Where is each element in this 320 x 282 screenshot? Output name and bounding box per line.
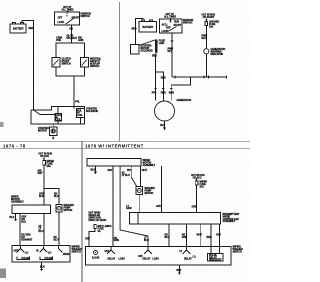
wire battery to solenoid RED (136, 19, 143, 45)
wire to wiper fuse (196, 179, 198, 181)
svg-text:ASSEMBLY: ASSEMBLY (143, 164, 156, 167)
wire labels row (56, 35, 83, 43)
pull in coil (76, 109, 84, 124)
svg-text:SWITCH: SWITCH (183, 22, 192, 25)
svg-text:BLK: BLK (168, 50, 173, 53)
wire jog to generator BRN (171, 77, 190, 100)
wiper washer switch box (86, 247, 232, 266)
svg-text:RED: RED (161, 91, 166, 94)
svg-text:25A: 25A (47, 165, 52, 168)
svg-text:SOLENOID: SOLENOID (141, 50, 153, 53)
wire solenoid to starter motor (52, 124, 54, 127)
svg-text:PNK: PNK (56, 39, 61, 42)
svg-text:BLU: BLU (39, 230, 44, 233)
intermittent wiper controller box (130, 213, 221, 225)
battery B1 (10, 23, 26, 34)
wire long LT BLU with bend (120, 166, 148, 247)
svg-text:PARK OR HEAD: PARK OR HEAD (89, 219, 107, 222)
wire labels (21, 216, 33, 242)
svg-text:BLK: BLK (91, 168, 96, 171)
wiper motor assembly box (87, 159, 141, 167)
svg-text:PPL: PPL (75, 101, 80, 104)
switch interior contacts (14, 246, 71, 260)
wiper motor assembly box (12, 205, 51, 214)
svg-text:WASH: WASH (63, 253, 70, 256)
wire switch to ground (178, 265, 180, 273)
svg-text:LOCK: LOCK (58, 21, 65, 24)
label intermittent wiper controller (223, 213, 241, 223)
label wiper washer switch (72, 246, 83, 254)
label fusible link (159, 40, 166, 45)
generator warning indicator L1 (204, 49, 209, 54)
svg-text:START: START (174, 24, 182, 27)
svg-text:BLK: BLK (202, 37, 207, 40)
inst lamps fuse F5 (94, 225, 112, 234)
label washer pump motor (145, 187, 156, 195)
generator G1 (155, 101, 175, 121)
svg-text:SWITCH: SWITCH (72, 251, 81, 254)
svg-text:10A: 10A (209, 26, 214, 29)
svg-text:SWITCH: SWITCH (90, 65, 99, 68)
wire battery to starter solenoid (RED) (22, 21, 34, 111)
wire to wiper fuse (43, 158, 45, 161)
label clutch start switch (62, 58, 72, 66)
header underline (0, 148, 250, 150)
svg-text:25A: 25A (200, 186, 205, 189)
wire fuse down (43, 165, 45, 205)
wire label DK BLU (54, 236, 59, 241)
label starter solenoid (86, 108, 98, 113)
starter motor solenoid box (131, 45, 140, 55)
ground wiper switch right (178, 273, 181, 276)
svg-text:BLK: BLK (177, 269, 182, 272)
junction T to washer pump (44, 189, 59, 205)
wiper fuse F3 (43, 158, 45, 160)
svg-text:WHT: WHT (142, 169, 148, 172)
wire labels LT BLU (122, 171, 149, 241)
svg-text:COIL: COIL (77, 114, 83, 117)
svg-text:DELAY: DELAY (143, 258, 151, 261)
wire branch RED to generator (156, 72, 164, 101)
label washer pump motor (64, 204, 75, 212)
neutral safety backup lamp switch S3 (81, 58, 89, 68)
svg-text:MOTOR: MOTOR (145, 192, 154, 195)
junction bus upper (56, 43, 85, 58)
ground wiper motor (14, 219, 17, 222)
svg-text:OFF: OFF (58, 17, 63, 20)
wire fusible link to generator (155, 54, 157, 101)
switch interior illumination lamp (92, 251, 99, 260)
battery B2 (139, 20, 157, 32)
svg-text:BATTERY: BATTERY (143, 26, 154, 29)
starter motor M1 (38, 127, 57, 135)
svg-text:SOLENOID: SOLENOID (86, 110, 98, 113)
svg-text:BLK: BLK (21, 221, 26, 224)
svg-text:OR START: OR START (203, 16, 215, 19)
wire label DK GRN (114, 237, 119, 242)
wiper washer switch box (12, 246, 70, 263)
solenoid interior contacts (34, 107, 74, 115)
wire label PNK BLK (168, 48, 174, 53)
wire WHT (140, 166, 147, 187)
svg-text:GRN: GRN (114, 239, 119, 242)
label generator warning indicator (211, 48, 226, 56)
gauges fuse F2 (205, 19, 208, 25)
svg-text:INDICATOR: INDICATOR (211, 53, 224, 56)
hot in run or start label (202, 14, 216, 19)
svg-text:SWITCH: SWITCH (81, 15, 90, 18)
svg-text:BLU: BLU (144, 239, 149, 242)
svg-text:LT BLU: LT BLU (122, 174, 130, 177)
wiper fuse F4 (195, 179, 197, 181)
svg-text:OFF: OFF (105, 250, 110, 253)
wire labels PPL RED BRN (152, 89, 174, 95)
svg-text:MOTOR: MOTOR (64, 209, 73, 212)
scan artifact bottom left corner (0, 269, 6, 279)
ground wiper switch (40, 269, 43, 272)
svg-text:BLK: BLK (160, 124, 165, 127)
divider between top quadrants (119, 2, 121, 141)
svg-text:BLU: BLU (165, 236, 170, 239)
svg-text:GRN: GRN (126, 207, 131, 210)
wire generator to ground (164, 121, 166, 128)
svg-text:GRN: GRN (78, 39, 83, 42)
junction bus lower (56, 67, 85, 76)
svg-text:GRY: GRY (38, 172, 43, 175)
wire label (39, 225, 44, 233)
svg-text:SWITCH: SWITCH (233, 251, 242, 254)
svg-text:ASSEMBLY: ASSEMBLY (223, 220, 236, 223)
svg-text:OR: OR (69, 28, 73, 31)
section divider vertical (81, 141, 83, 282)
svg-text:RED: RED (152, 55, 157, 58)
hot w/ regular switch label (89, 212, 107, 222)
svg-text:GRY: GRY (156, 205, 161, 208)
junction bus to indicator (172, 76, 227, 79)
svg-text:PPL: PPL (152, 91, 157, 94)
svg-text:BLK: BLK (39, 195, 44, 198)
svg-text:DELAY: DELAY (108, 258, 116, 261)
svg-text:RED: RED (132, 28, 137, 31)
wire label (38, 170, 43, 175)
fusible link F1 (155, 40, 158, 54)
svg-text:1978 W/ INTERMITTENT: 1978 W/ INTERMITTENT (85, 143, 144, 148)
svg-text:GENERATOR: GENERATOR (177, 99, 192, 102)
hold in coil (55, 114, 63, 124)
svg-text:GRY: GRY (108, 169, 113, 172)
wire wiper motor to switch 2 (43, 214, 45, 246)
wire labels (39, 193, 59, 198)
label wiper fuse (200, 181, 208, 189)
pulse relay rheostat box (208, 254, 224, 262)
scan artifact left edge (0, 122, 4, 127)
wire wiper motor ground BLK (15, 214, 17, 220)
wire ignition to junction PNK/BLK (171, 33, 173, 77)
svg-text:4A: 4A (98, 230, 101, 233)
svg-text:OFF: OFF (14, 250, 19, 253)
label gauges fuse (209, 21, 220, 29)
wire junction to solenoid (PPL) (73, 76, 75, 107)
svg-text:GRY: GRY (85, 238, 90, 241)
wire ignition to junction (70, 25, 72, 43)
hot at all times label (62, 6, 75, 13)
label wiper fuse (47, 160, 55, 168)
wire fuse to indicator (205, 26, 207, 49)
svg-text:LOCK: LOCK (162, 30, 169, 33)
svg-text:BLK: BLK (40, 266, 45, 269)
ground starter motor (52, 135, 55, 140)
svg-text:RED: RED (29, 27, 34, 30)
svg-text:BATTERY: BATTERY (13, 28, 24, 31)
section divider horizontal (0, 140, 250, 142)
label ignition switch (81, 13, 92, 18)
svg-text:GRN: GRN (182, 236, 187, 239)
wire fuse to controller GRN (192, 185, 197, 213)
wire wiper motor ground BLK right quadrant (95, 166, 97, 172)
wire GRY motor to controller (156, 166, 161, 213)
svg-text:RHEOSTAT: RHEOSTAT (209, 259, 222, 262)
ground generator (163, 128, 166, 131)
hot in run or acc label (191, 174, 205, 179)
label ignition switch (183, 19, 194, 24)
svg-text:PPL/WHT: PPL/WHT (67, 37, 78, 40)
svg-text:PPL: PPL (127, 169, 132, 172)
washer pump motor M2 (56, 205, 62, 213)
svg-text:BLU: BLU (54, 239, 59, 242)
ignition switch S4 (160, 19, 183, 33)
svg-text:BLU: BLU (54, 195, 59, 198)
wire wiper motor to switch GRY (112, 166, 114, 247)
label neutral safety switch (90, 58, 102, 68)
clutch start switch S2 (52, 58, 60, 68)
svg-text:HI: HI (180, 250, 183, 253)
svg-text:RDA/WHT: RDA/WHT (21, 239, 33, 242)
wire switch to ground (41, 262, 43, 269)
svg-text:LO: LO (48, 252, 51, 255)
svg-text:MOTOR: MOTOR (38, 130, 47, 133)
hot at all times label (164, 13, 177, 23)
washer pump motor M3 (136, 187, 143, 195)
svg-text:SWITCH: SWITCH (62, 63, 71, 66)
starter solenoid box (31, 107, 85, 124)
label wiper motor assembly (143, 159, 156, 167)
svg-text:LO/HI: LO/HI (119, 258, 126, 261)
wire indicator to junction (205, 54, 207, 77)
svg-text:RUN: RUN (174, 21, 179, 24)
svg-text:OR ACC: OR ACC (40, 155, 49, 158)
ignition switch S1 (55, 12, 80, 25)
controller output wires (165, 224, 222, 254)
hot in run or acc label (39, 153, 53, 158)
svg-text:OFF: OFF (166, 27, 171, 30)
svg-text:BRN: BRN (169, 91, 174, 94)
svg-text:LO: LO (25, 252, 28, 255)
svg-text:HI: HI (36, 250, 39, 253)
svg-text:1976 - 78: 1976 - 78 (3, 143, 26, 148)
svg-text:RED: RED (161, 77, 166, 80)
svg-text:DELAY: DELAY (184, 258, 192, 261)
wire washer pump to controller (138, 195, 140, 213)
svg-text:BLK: BLK (10, 216, 15, 219)
svg-text:WHT: WHT (197, 233, 203, 236)
svg-text:BRN: BRN (207, 236, 212, 239)
wire PPL to washer contact (127, 166, 137, 186)
svg-text:ILLUM: ILLUM (92, 257, 99, 260)
svg-text:GRY: GRY (216, 233, 221, 236)
svg-text:ASSEMBLY: ASSEMBLY (11, 201, 24, 204)
wire inst lamps to switch GRY (85, 229, 95, 247)
wire label PNK BLK (202, 35, 208, 40)
wire wiper motor to switch (19, 214, 21, 246)
switch interior contacts right quadrant (105, 247, 196, 261)
wire washer pump to switch (58, 212, 60, 246)
svg-text:LO/HI: LO/HI (153, 258, 160, 261)
svg-text:LINK: LINK (159, 42, 165, 45)
wire solenoid to fusible link (139, 40, 155, 46)
svg-text:LO: LO (193, 256, 196, 259)
label wiper washer switch (233, 246, 244, 254)
label wiper motor assembly (11, 196, 24, 204)
wire to gauges fuse (205, 19, 207, 22)
svg-text:GRN: GRN (192, 206, 197, 209)
label starter motor solenoid (141, 45, 153, 53)
